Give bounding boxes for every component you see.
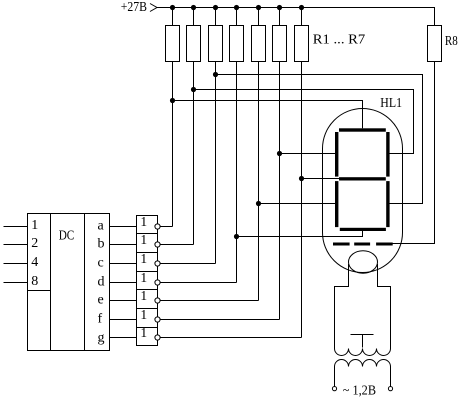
svg-text:1: 1 (140, 270, 147, 285)
svg-text:1: 1 (140, 232, 147, 247)
svg-text:8: 8 (31, 274, 38, 289)
svg-text:b: b (98, 237, 105, 252)
svg-text:1: 1 (31, 218, 38, 233)
svg-text:1: 1 (140, 325, 147, 340)
svg-text:c: c (98, 256, 104, 271)
svg-text:1: 1 (140, 214, 147, 229)
svg-text:DC: DC (59, 229, 75, 244)
svg-text:e: e (98, 293, 104, 308)
svg-text:1: 1 (140, 307, 147, 322)
svg-text:4: 4 (31, 255, 38, 270)
svg-text:~ 1,2В: ~ 1,2В (343, 383, 376, 398)
svg-text:R8: R8 (445, 34, 458, 49)
svg-text:HL1: HL1 (380, 96, 402, 111)
svg-text:1: 1 (140, 288, 147, 303)
svg-text:R1 ... R7: R1 ... R7 (313, 32, 365, 47)
svg-text:1: 1 (140, 251, 147, 266)
svg-text:f: f (98, 312, 103, 327)
svg-text:a: a (98, 219, 105, 234)
svg-text:2: 2 (31, 236, 38, 251)
svg-text:+27В: +27В (121, 0, 147, 15)
svg-text:d: d (98, 275, 105, 290)
svg-text:g: g (98, 331, 105, 346)
